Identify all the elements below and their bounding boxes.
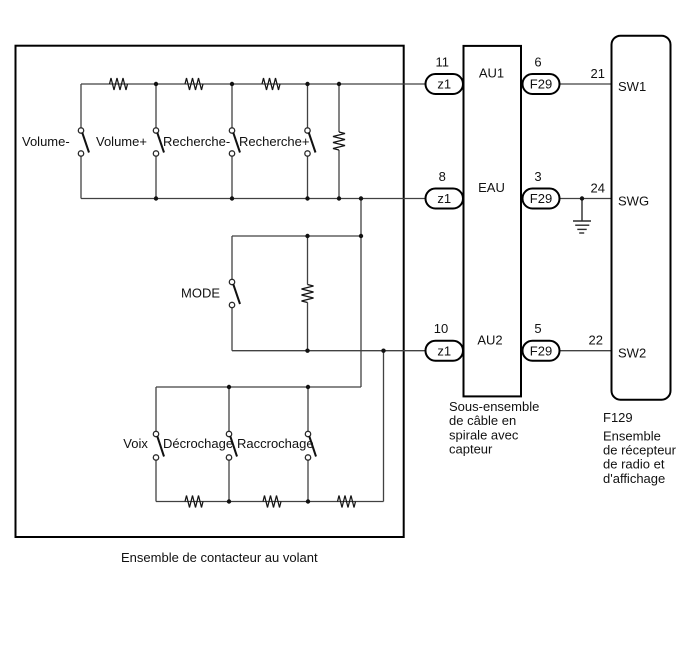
- resistor R7 (bottom bus, between Decrochage and Raccrochage): [263, 496, 281, 508]
- svg-text:spirale avec: spirale avec: [449, 427, 519, 442]
- node: junction dots group 3 buses: [227, 385, 310, 504]
- label: F129 receiver block: [603, 410, 677, 486]
- wire: MODE resistor column vertical: [307, 236, 309, 285]
- resistor R6 (bottom bus, between Voix and Decrochage): [185, 496, 203, 508]
- wire: AU2 wire (y=350.7) from MODE column to z1 pin 10: [232, 350, 426, 352]
- switch MODE: [229, 279, 240, 307]
- resistor R8 (bottom bus, right segment): [338, 496, 356, 508]
- svg-text:MODE: MODE: [181, 286, 220, 301]
- svg-text:3: 3: [534, 169, 541, 184]
- wire: Decrochage column vertical: [228, 387, 230, 431]
- wire: Recherche- column vertical: [231, 84, 233, 128]
- wire: Recherche+ column vertical: [307, 84, 309, 128]
- svg-text:24: 24: [591, 180, 605, 195]
- svg-text:Volume+: Volume+: [96, 134, 147, 149]
- wire: Raccrochage column vertical: [307, 387, 309, 431]
- connector z1 pin 10: [426, 341, 464, 361]
- svg-text:EAU: EAU: [478, 180, 505, 195]
- svg-text:F29: F29: [530, 77, 552, 92]
- wire: vertical link x=383.5 from group 3 bottom bus up to AU2 wire: [383, 351, 385, 502]
- wire: AU1 top bus (y=84) from Volume- column to z1 pin 11: [81, 83, 426, 85]
- connector F29 pin 5: [523, 341, 560, 361]
- wire: MODE switch column vertical: [231, 236, 233, 279]
- svg-text:6: 6: [534, 55, 541, 70]
- wire: Volume+ column vertical: [155, 84, 157, 128]
- resistor R5 (MODE group, vertical): [302, 285, 314, 303]
- svg-text:Sous-ensemble: Sous-ensemble: [449, 399, 539, 414]
- wire: SW1 wire from F29 pin 6 to F129 pin 21: [560, 83, 612, 85]
- wire: pull-down resistor column vertical (right of group 1): [338, 84, 340, 132]
- svg-text:F129: F129: [603, 410, 633, 425]
- switch Raccrochage: [305, 431, 316, 460]
- svg-text:Ensemble: Ensemble: [603, 428, 661, 443]
- svg-text:AU1: AU1: [479, 65, 504, 80]
- node: junction dots group1 top bus: [154, 82, 341, 86]
- svg-text:capteur: capteur: [449, 442, 493, 457]
- svg-text:SW1: SW1: [618, 79, 646, 94]
- box: F129 Ensemble de recepteur de radio et d'affichage: [612, 36, 671, 400]
- svg-text:Voix: Voix: [123, 436, 148, 451]
- connector z1 pin 11: [426, 74, 464, 94]
- svg-text:F29: F29: [530, 191, 552, 206]
- svg-text:Ensemble de contacteur au vola: Ensemble de contacteur au volant: [121, 550, 318, 565]
- connector F29 pin 6: [523, 74, 560, 94]
- svg-text:d'affichage: d'affichage: [603, 471, 665, 486]
- svg-text:22: 22: [589, 333, 603, 348]
- svg-text:Raccrochage: Raccrochage: [237, 436, 314, 451]
- wire: Voix column vertical: [155, 387, 157, 431]
- svg-text:AU2: AU2: [477, 333, 502, 348]
- svg-text:z1: z1: [437, 343, 451, 358]
- svg-text:Volume-: Volume-: [22, 134, 70, 149]
- svg-text:5: 5: [534, 321, 541, 336]
- svg-text:SW2: SW2: [618, 346, 646, 361]
- svg-text:SWG: SWG: [618, 194, 649, 209]
- switch Volume+: [153, 128, 164, 156]
- svg-text:11: 11: [436, 55, 450, 70]
- node: junction dots AU2 wire: [305, 349, 385, 353]
- node: junction dots EAU bus: [154, 196, 363, 200]
- svg-text:Recherche+: Recherche+: [239, 134, 309, 149]
- ground (earth symbol on SWG wire): [573, 199, 591, 234]
- svg-text:F29: F29: [530, 343, 552, 358]
- wire: EAU bottom bus (y=198.5) from Volume- column to z1 pin 8: [81, 198, 426, 200]
- resistor R3 (top bus, between Recherche- and Recherche+): [262, 78, 280, 90]
- svg-text:z1: z1: [437, 191, 451, 206]
- wire: SWG wire from F29 pin 3 to F129 pin 24: [560, 198, 612, 200]
- connector F29 pin 3: [523, 189, 560, 209]
- svg-text:10: 10: [434, 321, 448, 336]
- switch Decrochage: [226, 431, 237, 460]
- switch Voix: [153, 431, 164, 460]
- switch Recherche+: [305, 128, 316, 156]
- box: Ensemble de contacteur au volant (steering pad switch assembly outline): [16, 46, 404, 537]
- svg-text:de câble en: de câble en: [449, 413, 516, 428]
- node: ground junction dot on SWG wire: [580, 196, 584, 200]
- svg-text:8: 8: [439, 169, 446, 184]
- connector z1 pin 8: [426, 189, 464, 209]
- switch Recherche-: [229, 128, 240, 156]
- wire: group 3 bottom bus (y=501.5): [156, 501, 384, 503]
- wire: MODE group top wire (y=236): [232, 235, 361, 237]
- resistor R4 (vertical, right side of group 1): [333, 132, 345, 150]
- switch Volume-: [78, 128, 89, 156]
- label: Sous-ensemble de cable en spirale avec capteur: [449, 399, 539, 457]
- svg-text:21: 21: [591, 66, 605, 81]
- resistor R2 (top bus, between Volume+ and Recherche-): [185, 78, 203, 90]
- wire: SW2 wire from F29 pin 5 to F129 pin 22: [560, 350, 612, 352]
- node: junction dots MODE top wire: [305, 234, 363, 238]
- resistor R1 (top bus, between Volume- and Volume+): [110, 78, 128, 90]
- svg-text:de récepteur: de récepteur: [603, 443, 677, 458]
- wire: group 3 top bus (y=387): [156, 386, 361, 388]
- svg-text:de radio et: de radio et: [603, 457, 665, 472]
- svg-text:z1: z1: [437, 77, 451, 92]
- box: Sous-ensemble de cable en spirale avec capteur (spiral cable): [464, 46, 522, 397]
- wire: vertical link x=361 from EAU bus down to group 3 top bus: [360, 199, 362, 388]
- svg-text:Recherche-: Recherche-: [163, 134, 230, 149]
- wire: Volume- column vertical (left side of group 1): [80, 84, 82, 128]
- svg-text:Décrochage: Décrochage: [163, 436, 233, 451]
